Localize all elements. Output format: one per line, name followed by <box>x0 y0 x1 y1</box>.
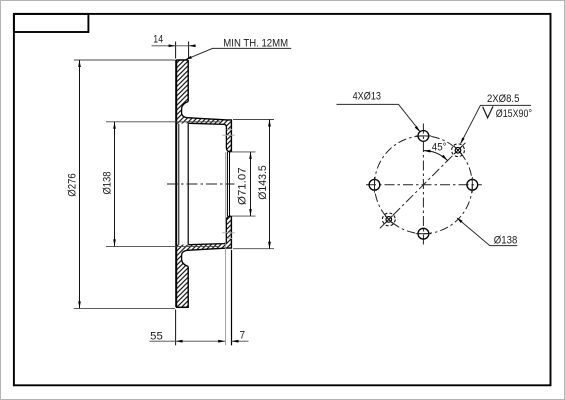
hidden edge grey lower b <box>222 232 234 234</box>
svg-text:Ø138: Ø138 <box>101 172 113 195</box>
dimension D276 extension bottom <box>74 307 175 309</box>
hat neck groove curve lower <box>182 250 190 266</box>
leader D138 arrowhead <box>456 217 462 223</box>
dimension D71.07 line <box>250 152 252 216</box>
dimension D71.07 extension bottom <box>232 215 256 217</box>
svg-text:7: 7 <box>240 330 246 342</box>
dimension 14 arrows <box>169 44 176 47</box>
disc inner bore line <box>178 124 180 245</box>
bolt hole D13 bottom <box>418 228 429 239</box>
dimension 7 arrow <box>232 340 239 343</box>
dimension 55-7 extension line right (dark) <box>231 250 233 345</box>
svg-text:14: 14 <box>153 34 163 46</box>
countersunk hole bottom-left : countersink dashed circle <box>382 213 395 226</box>
disc right edge middle <box>187 124 189 245</box>
dimension D138 extension bottom <box>106 245 220 247</box>
hidden edge grey lower a <box>227 237 232 239</box>
bolt hole top cross tick <box>416 135 432 137</box>
bolt hole bottom cross tick <box>416 233 432 235</box>
dimension D143.5 extension bottom <box>233 248 274 250</box>
svg-text:55: 55 <box>150 330 163 342</box>
dimension D71.07 arrows <box>249 152 252 159</box>
dimension D71.07 extension top <box>232 151 256 153</box>
hidden edge grey upper b <box>222 134 234 136</box>
hat inner surface upper with fillet <box>188 123 231 152</box>
centre bore silhouette line 1 <box>226 152 228 216</box>
svg-text:4XØ13: 4XØ13 <box>353 91 381 103</box>
hat neck groove curve upper <box>182 102 190 118</box>
leader 2XD8.5 line <box>461 105 531 143</box>
dimension 55 extension line left <box>175 310 177 346</box>
countersunk hole top-right : crossing centre marks <box>454 146 462 154</box>
disc+hat section hatch (top half) <box>176 60 231 152</box>
bolt hole right cross tick <box>471 177 473 193</box>
countersunk hole D8.5 bottom-left : inner circle <box>386 217 392 223</box>
dimension D276 line <box>79 60 81 308</box>
svg-text:2XØ8.5: 2XØ8.5 <box>487 93 519 105</box>
countersink symbol <box>483 106 493 117</box>
dimension D143.5 extension top <box>233 119 274 121</box>
dimension D143.5 line <box>269 120 271 249</box>
dimension 55 line <box>150 340 226 342</box>
dimension 55 arrows <box>176 340 183 343</box>
hat outer surface lower (bottom + wall) <box>190 216 232 250</box>
hat inner surface lower with fillet <box>188 216 231 245</box>
leader MIN TH. arrowhead <box>185 56 192 60</box>
leader D138 line <box>457 218 517 245</box>
dimension D276 arrows <box>78 60 81 67</box>
dimension D276 extension top <box>74 59 176 61</box>
svg-text:45°: 45° <box>432 142 447 154</box>
dimension D138 arrows <box>113 122 116 129</box>
dimension D138 line <box>114 122 116 247</box>
countersunk hole bottom-left : crossing centre marks <box>385 216 393 224</box>
dimension 7 line stub <box>232 340 249 342</box>
45 degree arc arrow at vertical centreline <box>423 150 430 153</box>
leader 4XD13 arrowhead <box>415 126 421 132</box>
45 degree angle dimension arc <box>423 151 447 161</box>
disc right edge lower <box>187 267 189 309</box>
title block rectangle <box>14 14 89 32</box>
dimension 14 extension lines <box>176 42 189 59</box>
bolt hole D13 top <box>418 131 429 142</box>
disc+hat section hatch (bottom half) <box>176 216 231 308</box>
bolt circle D138 (dash-dot) <box>375 136 473 234</box>
disc left edge (friction face) <box>175 60 177 307</box>
svg-text:MIN TH. 12MM: MIN TH. 12MM <box>223 37 288 49</box>
svg-text:Ø71.07: Ø71.07 <box>237 167 249 205</box>
leader MIN TH. 12MM line <box>187 48 292 59</box>
svg-text:Ø276: Ø276 <box>67 173 79 197</box>
dimension D143.5 arrows <box>268 120 271 127</box>
bolt hole left cross tick <box>374 177 376 193</box>
dimension D138 extension top <box>106 121 220 123</box>
disc right edge upper <box>187 60 189 102</box>
disc top edge <box>176 59 188 61</box>
right view vertical centreline <box>422 124 424 248</box>
bolt hole D13 left <box>369 179 380 190</box>
centre bore silhouette line 2 <box>229 152 231 216</box>
axis centreline of section <box>167 183 235 185</box>
right view 45deg centreline through countersunk holes <box>380 141 467 228</box>
leader 4XD13 line <box>337 104 420 130</box>
disc bottom edge <box>176 306 188 308</box>
svg-text:Ø138: Ø138 <box>494 234 518 246</box>
countersunk hole top-right : countersink dashed circle <box>452 144 465 157</box>
right view horizontal centreline <box>366 184 482 186</box>
hidden edge grey upper a <box>227 129 232 131</box>
bolt hole D13 right <box>467 179 478 190</box>
svg-text:Ø143.5: Ø143.5 <box>257 165 269 200</box>
svg-text:Ø15X90°: Ø15X90° <box>496 108 532 120</box>
hat outer surface upper (top + wall) <box>190 118 232 152</box>
mounting face hidden line (grey, vertical) <box>225 152 227 345</box>
45 degree arc arrow at diagonal <box>442 155 448 161</box>
countersunk hole D8.5 top-right : inner circle <box>455 147 461 153</box>
leader 2XD8.5 arrowhead <box>460 138 464 145</box>
dimension 14 line <box>152 45 195 47</box>
